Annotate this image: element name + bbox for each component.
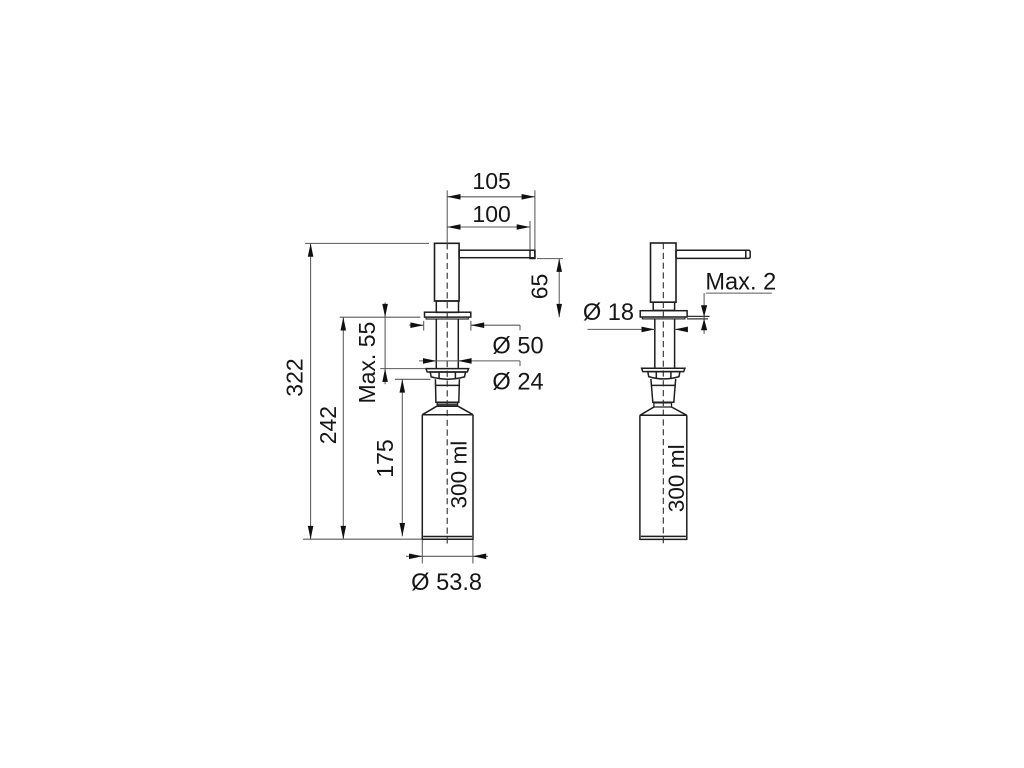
dimension 100 xyxy=(447,221,530,250)
pump head (front view) xyxy=(435,243,460,301)
lock flange plate (front view) xyxy=(426,369,469,372)
svg-text:Ø 24: Ø 24 xyxy=(492,370,543,396)
centerline (front view) xyxy=(446,243,448,543)
dimension diameter 50 xyxy=(409,321,520,331)
dimension 242 xyxy=(340,317,421,539)
svg-text:Max. 2: Max. 2 xyxy=(705,269,776,295)
dimension Max. 55 xyxy=(380,303,426,385)
svg-text:65: 65 xyxy=(527,274,553,300)
bottle nozzle coupling (front view) xyxy=(435,379,459,402)
bottle nozzle coupling (side view) xyxy=(651,379,676,402)
bottle body 300 ml (side view) xyxy=(640,415,687,539)
svg-text:Ø 50: Ø 50 xyxy=(492,334,543,360)
hex lock nut (side view) xyxy=(648,372,680,379)
head stem (side view) xyxy=(653,302,674,310)
svg-text:175: 175 xyxy=(372,439,398,477)
dimension diameter 18 xyxy=(588,328,688,330)
lock flange plate (side view) xyxy=(642,368,685,371)
coupling ring (side view) xyxy=(653,402,672,407)
svg-text:300 ml: 300 ml xyxy=(664,444,689,512)
spout arm (side view) xyxy=(676,250,750,258)
dimension 105 xyxy=(447,190,535,250)
dimension 322 xyxy=(303,243,429,539)
dimension 175 xyxy=(395,379,431,536)
svg-text:100: 100 xyxy=(472,201,510,227)
svg-text:242: 242 xyxy=(315,406,341,444)
svg-text:300 ml: 300 ml xyxy=(446,441,471,509)
pump head (side view) xyxy=(651,243,677,302)
threaded neck (side view) xyxy=(655,319,675,368)
head stem (front view) xyxy=(436,301,458,312)
dimension diameter 53.8 xyxy=(406,540,488,564)
coupling rings (front view) xyxy=(437,402,459,406)
spout arm (front view) xyxy=(459,250,535,258)
svg-text:Max. 55: Max. 55 xyxy=(354,322,380,404)
svg-text:322: 322 xyxy=(281,358,307,396)
dimension diameter 24 xyxy=(419,361,520,366)
bottle shoulder (side view) xyxy=(640,407,687,415)
svg-text:105: 105 xyxy=(472,168,510,194)
dimension Max. 2 xyxy=(687,293,772,334)
bottle shoulder (front view) xyxy=(422,406,473,414)
svg-text:Ø 53.8: Ø 53.8 xyxy=(411,570,482,596)
spout tip (front view) xyxy=(530,250,535,258)
dimension 65 xyxy=(537,259,563,318)
hex lock nut (front view) xyxy=(430,372,465,379)
centerline (side view) xyxy=(662,243,664,544)
bottle body 300 ml (front view) xyxy=(422,415,473,540)
svg-text:Ø 18: Ø 18 xyxy=(583,300,634,326)
mounting flange (front view) xyxy=(425,312,471,319)
threaded shaft (front view) xyxy=(436,319,458,369)
mounting flange (side view) xyxy=(640,311,687,319)
